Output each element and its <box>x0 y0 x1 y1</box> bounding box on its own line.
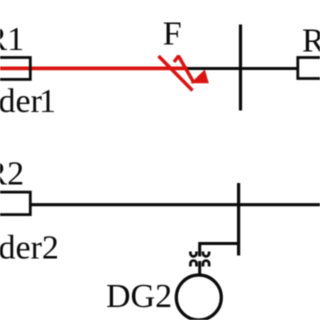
svg-text:der2: der2 <box>0 229 59 266</box>
svg-text:1: 1 <box>39 83 56 120</box>
svg-text:F: F <box>163 15 182 52</box>
svg-text:DG2: DG2 <box>106 278 172 315</box>
svg-text:R2: R2 <box>302 23 320 60</box>
svg-text:R2: R2 <box>0 155 24 192</box>
svg-text:der: der <box>0 83 43 120</box>
svg-text:R1: R1 <box>0 21 24 58</box>
